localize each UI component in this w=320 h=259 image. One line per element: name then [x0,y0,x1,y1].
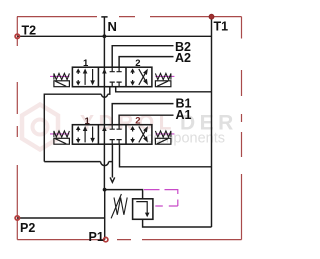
wire feed line to valve2 with hop [44,161,112,163]
main black lines [17,17,211,240]
wire A2 [119,57,173,68]
valve V2 left spring [54,131,70,137]
V1 middle box blocked stubs [110,67,122,72]
wire N center carryover line [103,36,105,189]
V2 left box up arrow [84,131,86,143]
valve V2 right pilot line [155,133,174,135]
V1 right box small arrows [132,72,134,75]
V2 right box crossed arrows [139,131,145,142]
valve V1 body [72,67,151,87]
valve V1 right lever box [155,81,171,87]
svg-text:2: 2 [135,58,140,69]
svg-text:1: 1 [85,116,91,127]
wire A1 [119,115,173,125]
pilot line dashed magenta [144,190,178,206]
svg-text:P1: P1 [89,230,104,244]
hop arc over center line upper [101,94,107,97]
V1 left box small arrows [77,72,79,75]
valve V2 right lever box [155,138,171,144]
hop arc over center line lower [101,162,109,166]
wire T1 vertical [211,17,213,227]
port T2 [15,34,19,38]
watermark logo ring [22,105,58,150]
V2 center arrow on carryover [102,126,107,131]
valve V1 left lever box [54,81,70,87]
valve V2 left pilot line [50,133,69,135]
wire B1 [112,104,173,125]
wire tank bottom loop [143,219,212,227]
wire P feed to relief [104,190,142,199]
V1 left box up arrow [84,73,86,85]
svg-text:N: N [108,19,117,34]
border left [16,17,18,240]
wire B2 [112,46,173,67]
svg-text:P2: P2 [20,221,35,235]
border bottom [17,239,241,241]
border right [241,17,243,240]
valve V2 right spring [155,131,171,137]
valve V1 internals [76,67,148,87]
V2 middle box blocked stubs [110,125,122,130]
V2 right box small arrows [132,129,134,132]
port P2 [15,216,19,220]
valve V1 right spring [155,73,171,79]
valve V1 left spring [54,73,70,79]
relief valve adjust arrow [111,194,121,218]
wire valve2 right to T1 [120,144,212,167]
wire P2 line [17,217,104,219]
valve V2 body [72,125,151,145]
svg-text:A1: A1 [176,108,192,122]
valve V1 right pilot line [155,75,174,77]
relief valve internal arrow [136,202,147,214]
junction node P feed [103,188,107,192]
open arrow discharge [110,177,115,182]
V2 left box small arrows [77,129,79,132]
wire valve2 left port down [111,144,113,177]
wire T2 rail [17,35,211,37]
svg-text:T2: T2 [22,23,37,37]
svg-text:1: 1 [83,58,89,69]
svg-text:A2: A2 [175,51,191,65]
valve V2 left lever box [54,138,70,144]
valve V2 internals [76,125,148,145]
relief valve RV1 box [133,199,153,220]
valve V1 left pilot line [50,75,69,77]
relief valve spring [114,198,127,215]
wire P1 down [104,190,106,240]
V2 left box down arrow [92,127,94,139]
V1 right box crossed arrows [139,74,145,85]
wire valve1 right to T1 [116,87,212,92]
port P1 [104,237,108,241]
svg-text:T1: T1 [214,19,229,33]
V1 center arrow on carryover [102,69,107,74]
wire N stem with top cap [101,17,107,36]
port T1 [209,14,214,19]
border top [17,16,242,18]
junction node T2 rail / N [103,34,107,38]
red body border (phantom dashed) [17,17,242,240]
V1 left box down arrow [92,69,94,81]
wire valve1 left feed with hop [44,87,110,162]
svg-text:2: 2 [135,116,140,127]
